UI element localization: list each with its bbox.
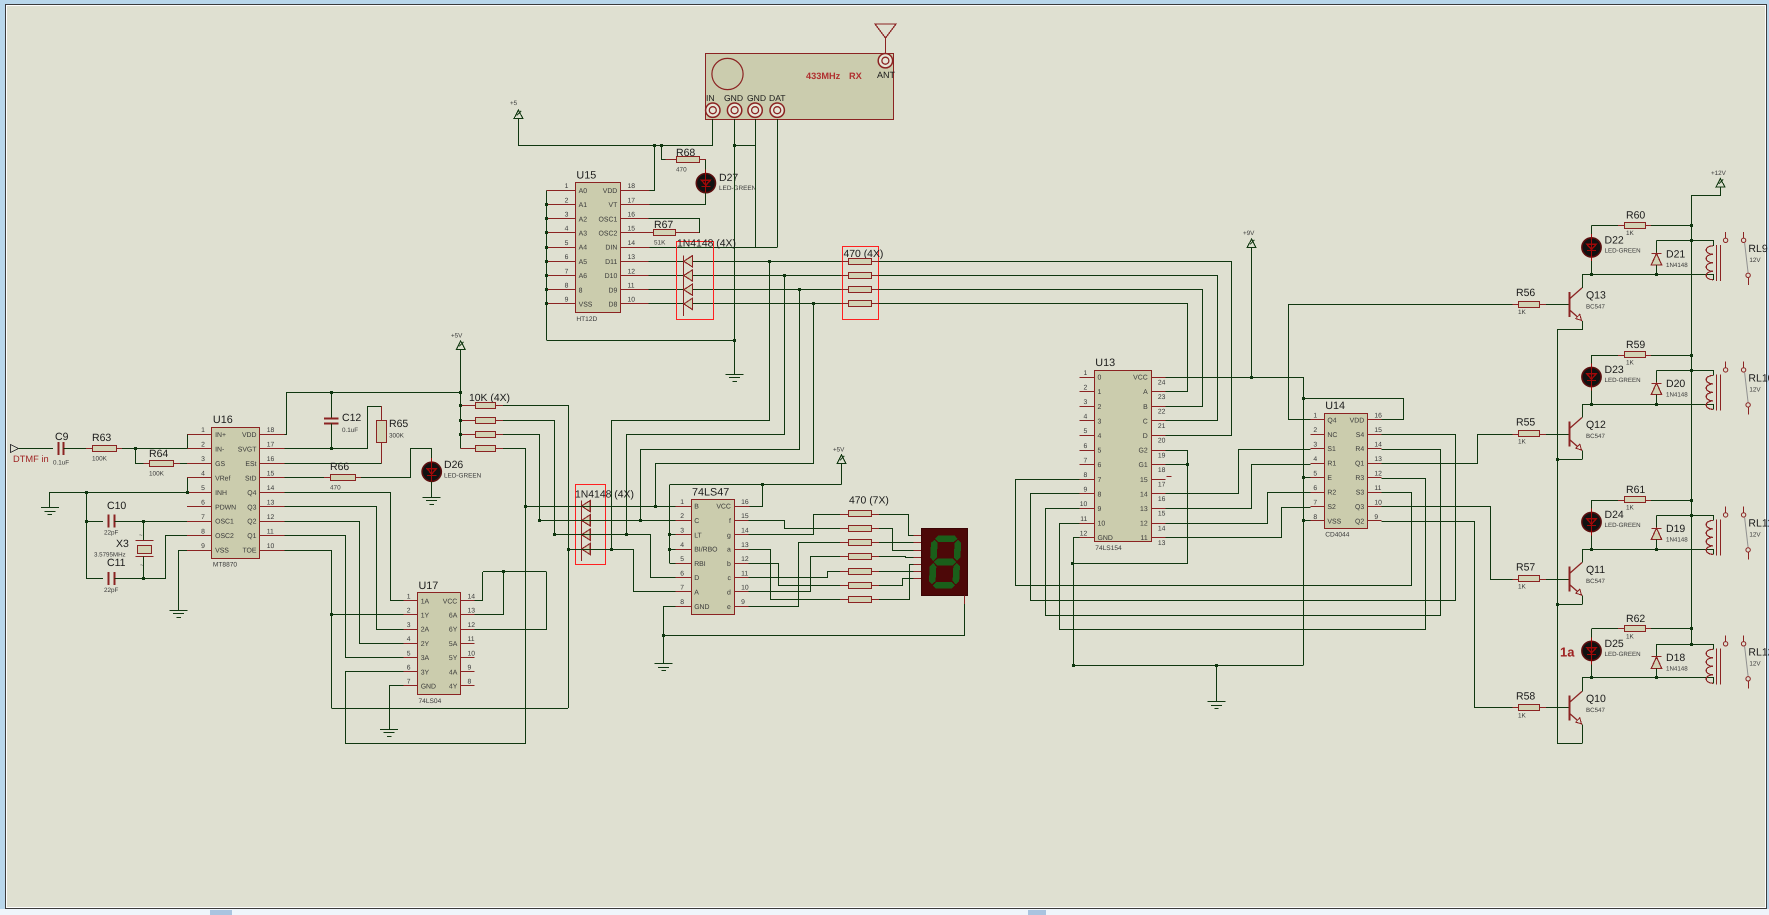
svg-text:BC547: BC547	[1586, 303, 1605, 310]
svg-text:R66: R66	[330, 461, 349, 473]
svg-text:GND: GND	[1098, 535, 1113, 542]
svg-text:~: ~	[139, 533, 143, 539]
svg-text:9: 9	[741, 599, 745, 606]
svg-text:D: D	[694, 575, 699, 582]
svg-text:6: 6	[1313, 485, 1317, 492]
svg-text:VCC: VCC	[1133, 375, 1148, 382]
svg-text:3: 3	[1084, 399, 1088, 406]
svg-text:OSC1: OSC1	[215, 519, 234, 526]
svg-text:IN-: IN-	[215, 446, 224, 453]
svg-text:3Y: 3Y	[421, 669, 430, 676]
svg-text:14: 14	[1140, 491, 1148, 498]
svg-text:1N4148: 1N4148	[1666, 262, 1688, 269]
svg-text:100K: 100K	[92, 456, 108, 463]
svg-text:13: 13	[1158, 540, 1166, 547]
svg-text:NC: NC	[1327, 432, 1337, 439]
svg-text:11: 11	[628, 283, 635, 290]
svg-text:14: 14	[267, 485, 275, 492]
svg-text:6: 6	[565, 254, 569, 261]
svg-text:4: 4	[1313, 456, 1317, 463]
svg-text:RBI: RBI	[694, 561, 706, 568]
svg-text:2: 2	[565, 197, 569, 204]
svg-text:Q1: Q1	[247, 533, 256, 540]
svg-text:D10: D10	[605, 273, 618, 280]
svg-text:3: 3	[407, 622, 411, 629]
svg-text:SVGT: SVGT	[238, 446, 258, 453]
svg-text:4: 4	[407, 636, 411, 643]
svg-text:S4: S4	[1356, 432, 1365, 439]
svg-text:A0: A0	[579, 188, 588, 195]
svg-text:LED-GREEN: LED-GREEN	[719, 185, 757, 192]
svg-text:7: 7	[407, 679, 411, 686]
svg-text:+5: +5	[510, 100, 518, 107]
svg-text:G1: G1	[1138, 462, 1147, 469]
svg-text:15: 15	[1374, 427, 1382, 434]
svg-text:16: 16	[628, 212, 636, 219]
svg-text:11: 11	[1141, 535, 1148, 542]
svg-text:14: 14	[468, 594, 476, 601]
svg-text:1: 1	[680, 499, 684, 506]
svg-text:IN: IN	[706, 93, 715, 103]
svg-text:13: 13	[1374, 456, 1382, 463]
svg-text:15: 15	[267, 471, 275, 478]
svg-text:6Y: 6Y	[449, 627, 458, 634]
svg-text:18: 18	[267, 427, 275, 434]
svg-text:C: C	[1143, 418, 1148, 425]
svg-text:17: 17	[628, 197, 636, 204]
svg-text:2: 2	[201, 442, 205, 449]
svg-text:RL11: RL11	[1748, 517, 1769, 529]
svg-text:3: 3	[680, 528, 684, 535]
svg-text:R65: R65	[389, 418, 408, 430]
svg-text:5A: 5A	[449, 641, 458, 648]
svg-text:2Y: 2Y	[421, 641, 430, 648]
svg-text:10: 10	[1098, 521, 1106, 528]
svg-text:LED-GREEN: LED-GREEN	[1605, 377, 1641, 384]
svg-text:7: 7	[1084, 457, 1088, 464]
svg-text:R4: R4	[1355, 446, 1364, 453]
svg-text:D: D	[1143, 433, 1148, 440]
svg-text:2: 2	[1084, 384, 1088, 391]
svg-text:R57: R57	[1516, 562, 1535, 574]
svg-text:D8: D8	[608, 302, 617, 309]
svg-text:D9: D9	[608, 287, 617, 294]
svg-text:2: 2	[680, 513, 684, 520]
svg-text:S1: S1	[1327, 446, 1336, 453]
svg-text:1: 1	[1098, 389, 1102, 396]
svg-text:9: 9	[1374, 514, 1378, 521]
svg-text:R63: R63	[92, 432, 111, 444]
svg-text:R55: R55	[1516, 417, 1535, 429]
svg-text:RX: RX	[849, 71, 863, 81]
svg-text:7: 7	[680, 585, 684, 592]
svg-text:e: e	[727, 604, 731, 611]
svg-text:A2: A2	[579, 216, 588, 223]
svg-text:BI/RBO: BI/RBO	[694, 547, 718, 554]
svg-text:C11: C11	[107, 557, 126, 569]
svg-text:3A: 3A	[421, 655, 430, 662]
svg-text:Q10: Q10	[1586, 693, 1606, 705]
svg-text:8: 8	[201, 528, 205, 535]
svg-text:15: 15	[741, 513, 749, 520]
svg-text:Q2: Q2	[247, 519, 256, 526]
svg-text:7: 7	[1313, 499, 1317, 506]
svg-text:INH: INH	[215, 490, 227, 497]
svg-text:2: 2	[1313, 427, 1317, 434]
svg-text:OSC2: OSC2	[599, 231, 618, 238]
svg-text:GND: GND	[421, 684, 436, 691]
svg-text:g: g	[727, 532, 731, 539]
svg-text:1: 1	[1084, 370, 1088, 377]
svg-text:1N4148 (4X): 1N4148 (4X)	[677, 239, 736, 250]
svg-text:VDD: VDD	[1350, 417, 1365, 424]
svg-text:B: B	[694, 504, 699, 511]
svg-text:13: 13	[1140, 506, 1148, 513]
svg-text:5: 5	[1098, 448, 1102, 455]
svg-text:1N4148: 1N4148	[1666, 392, 1688, 399]
svg-text:24: 24	[1158, 379, 1166, 386]
svg-text:22pF: 22pF	[104, 587, 119, 594]
svg-text:0.1uF: 0.1uF	[342, 427, 358, 434]
svg-text:D11: D11	[605, 259, 617, 266]
svg-text:11: 11	[741, 570, 748, 577]
svg-text:12V: 12V	[1749, 531, 1761, 538]
svg-text:16: 16	[741, 499, 749, 506]
svg-text:R68: R68	[676, 147, 695, 159]
svg-text:3: 3	[201, 456, 205, 463]
svg-text:R56: R56	[1516, 287, 1535, 299]
svg-text:c: c	[727, 575, 731, 582]
svg-text:R2: R2	[1327, 490, 1336, 497]
svg-text:1K: 1K	[1518, 712, 1527, 719]
svg-text:11: 11	[267, 528, 274, 535]
svg-text:9: 9	[1098, 506, 1102, 513]
svg-text:Q4: Q4	[247, 490, 256, 497]
svg-text:E: E	[1327, 475, 1332, 482]
svg-text:MT8870: MT8870	[213, 561, 238, 568]
svg-text:1N4148: 1N4148	[1666, 537, 1688, 544]
svg-text:LT: LT	[694, 532, 702, 539]
svg-text:CD4044: CD4044	[1325, 532, 1350, 539]
svg-text:+5V: +5V	[833, 447, 845, 454]
svg-text:470: 470	[330, 485, 341, 492]
svg-text:DIN: DIN	[605, 245, 617, 252]
svg-text:3: 3	[1313, 441, 1317, 448]
svg-text:8: 8	[1084, 472, 1088, 479]
svg-text:74LS154: 74LS154	[1095, 545, 1122, 552]
svg-text:1: 1	[407, 594, 411, 601]
svg-text:74LS47: 74LS47	[692, 486, 729, 498]
svg-text:C10: C10	[107, 500, 126, 512]
svg-text:11: 11	[1374, 485, 1381, 492]
svg-text:12V: 12V	[1749, 386, 1761, 393]
svg-text:0: 0	[1098, 375, 1102, 382]
svg-text:S3: S3	[1356, 490, 1365, 497]
svg-text:21: 21	[1158, 423, 1166, 430]
svg-text:12: 12	[468, 622, 476, 629]
svg-text:GS: GS	[215, 461, 225, 468]
svg-text:+12V: +12V	[1711, 170, 1727, 177]
svg-text:15: 15	[1158, 511, 1166, 518]
svg-text:13: 13	[267, 499, 275, 506]
svg-text:2: 2	[407, 608, 411, 615]
svg-text:6A: 6A	[449, 613, 458, 620]
svg-text:16: 16	[267, 456, 275, 463]
svg-text:13: 13	[468, 608, 476, 615]
svg-text:R59: R59	[1626, 339, 1645, 351]
svg-text:Q3: Q3	[247, 504, 256, 511]
svg-text:BC547: BC547	[1586, 433, 1605, 440]
svg-text:C: C	[694, 518, 699, 525]
svg-text:8: 8	[1313, 514, 1317, 521]
svg-text:1A: 1A	[421, 598, 430, 605]
svg-text:3: 3	[1098, 418, 1102, 425]
svg-text:100K: 100K	[149, 471, 165, 478]
svg-text:PDWN: PDWN	[215, 504, 236, 511]
svg-text:5: 5	[565, 240, 569, 247]
svg-text:17: 17	[1158, 482, 1166, 489]
svg-text:R61: R61	[1626, 484, 1645, 496]
svg-text:D21: D21	[1666, 248, 1685, 260]
svg-text:9: 9	[201, 543, 205, 550]
svg-text:1N4148 (4X): 1N4148 (4X)	[575, 490, 634, 501]
svg-text:9: 9	[565, 297, 569, 304]
svg-text:VDD: VDD	[242, 432, 257, 439]
svg-text:14: 14	[1158, 525, 1166, 532]
svg-text:A5: A5	[579, 259, 588, 266]
svg-text:4Y: 4Y	[449, 684, 458, 691]
svg-text:1N4148: 1N4148	[1666, 665, 1688, 672]
svg-text:ANT: ANT	[877, 70, 896, 80]
svg-text:16: 16	[1374, 413, 1382, 420]
svg-text:13: 13	[741, 542, 749, 549]
svg-text:5: 5	[1313, 470, 1317, 477]
svg-text:R62: R62	[1626, 613, 1645, 625]
svg-text:18: 18	[628, 183, 636, 190]
svg-text:10: 10	[267, 543, 275, 550]
svg-text:3: 3	[565, 212, 569, 219]
svg-text:3.5795MHz: 3.5795MHz	[94, 552, 126, 559]
svg-text:9: 9	[1084, 487, 1088, 494]
svg-text:R67: R67	[654, 219, 673, 231]
svg-text:470 (7X): 470 (7X)	[849, 496, 889, 507]
svg-text:IN+: IN+	[215, 432, 226, 439]
svg-text:1: 1	[201, 427, 205, 434]
svg-text:TOE: TOE	[242, 548, 256, 555]
svg-text:DTMF in: DTMF in	[13, 454, 49, 464]
svg-text:R64: R64	[149, 448, 168, 460]
svg-text:a: a	[727, 547, 731, 554]
svg-text:7: 7	[1098, 477, 1102, 484]
svg-text:Q4: Q4	[1327, 417, 1336, 424]
svg-text:6: 6	[1098, 462, 1102, 469]
svg-text:6: 6	[1084, 443, 1088, 450]
svg-text:C12: C12	[342, 412, 361, 424]
svg-text:1K: 1K	[1626, 230, 1635, 237]
svg-text:Q13: Q13	[1586, 289, 1606, 301]
svg-text:d: d	[727, 590, 731, 597]
svg-text:11: 11	[468, 636, 475, 643]
svg-text:U17: U17	[419, 580, 439, 592]
svg-text:5: 5	[201, 485, 205, 492]
svg-text:51K: 51K	[654, 240, 666, 247]
svg-text:f: f	[729, 518, 731, 525]
svg-text:1K: 1K	[1626, 360, 1635, 367]
svg-text:VDD: VDD	[603, 188, 618, 195]
svg-text:5Y: 5Y	[449, 655, 458, 662]
svg-text:8: 8	[468, 679, 472, 686]
svg-text:1K: 1K	[1626, 633, 1635, 640]
svg-text:14: 14	[628, 240, 636, 247]
svg-text:5: 5	[407, 650, 411, 657]
svg-text:1a: 1a	[1560, 645, 1575, 660]
svg-text:2A: 2A	[421, 627, 430, 634]
svg-text:RL10: RL10	[1748, 372, 1769, 384]
svg-text:A: A	[1143, 389, 1148, 396]
svg-text:B: B	[1143, 404, 1148, 411]
svg-text:A3: A3	[579, 231, 588, 238]
svg-text:1K: 1K	[1518, 309, 1527, 316]
svg-text:U13: U13	[1095, 357, 1115, 369]
svg-text:6: 6	[407, 665, 411, 672]
svg-text:17: 17	[267, 442, 275, 449]
svg-text:4A: 4A	[449, 669, 458, 676]
svg-text:OSC2: OSC2	[215, 533, 234, 540]
svg-text:LED-GREEN: LED-GREEN	[444, 473, 482, 480]
svg-text:1: 1	[1313, 413, 1317, 420]
svg-text:22pF: 22pF	[104, 530, 119, 537]
svg-text:A4: A4	[579, 245, 588, 252]
svg-text:8: 8	[579, 287, 583, 294]
svg-text:HT12D: HT12D	[576, 316, 597, 323]
svg-text:BC547: BC547	[1586, 707, 1605, 714]
svg-text:VCC: VCC	[443, 598, 458, 605]
svg-text:R60: R60	[1626, 209, 1645, 221]
svg-text:5: 5	[1084, 428, 1088, 435]
svg-text:8: 8	[565, 283, 569, 290]
svg-text:7: 7	[565, 268, 569, 275]
svg-text:D19: D19	[1666, 523, 1685, 535]
svg-text:Q12: Q12	[1586, 419, 1606, 431]
svg-text:GND: GND	[747, 93, 766, 103]
svg-text:~: ~	[140, 563, 144, 569]
svg-text:13: 13	[628, 254, 636, 261]
svg-text:RL9: RL9	[1748, 243, 1767, 255]
svg-text:Q3: Q3	[1355, 504, 1364, 511]
svg-text:U15: U15	[576, 170, 596, 182]
svg-text:U16: U16	[213, 414, 233, 426]
svg-text:VCC: VCC	[716, 504, 731, 511]
svg-text:A1: A1	[579, 202, 588, 209]
svg-text:A: A	[694, 590, 699, 597]
svg-text:433MHz: 433MHz	[806, 71, 841, 81]
svg-text:D27: D27	[719, 172, 738, 184]
svg-text:10: 10	[628, 297, 636, 304]
svg-text:OSC1: OSC1	[599, 216, 618, 223]
svg-text:7: 7	[201, 514, 205, 521]
svg-text:R3: R3	[1355, 475, 1364, 482]
svg-text:VSS: VSS	[579, 302, 593, 309]
svg-text:+5V: +5V	[451, 333, 463, 340]
svg-text:D18: D18	[1666, 652, 1685, 664]
svg-text:14: 14	[1374, 441, 1382, 448]
svg-text:LED-GREEN: LED-GREEN	[1605, 651, 1641, 658]
svg-text:12: 12	[628, 268, 636, 275]
svg-text:10: 10	[468, 650, 476, 657]
svg-text:StD: StD	[245, 475, 257, 482]
svg-text:LED-GREEN: LED-GREEN	[1605, 522, 1641, 529]
svg-text:X3: X3	[116, 538, 129, 550]
svg-text:74LS04: 74LS04	[419, 698, 442, 705]
svg-text:R1: R1	[1327, 461, 1336, 468]
svg-text:VSS: VSS	[1327, 519, 1341, 526]
svg-text:VT: VT	[608, 202, 618, 209]
svg-text:23: 23	[1158, 394, 1166, 401]
svg-text:9: 9	[468, 665, 472, 672]
svg-text:b: b	[727, 561, 731, 568]
svg-text:11: 11	[1080, 516, 1087, 523]
svg-text:VSS: VSS	[215, 548, 229, 555]
svg-text:1K: 1K	[1626, 505, 1635, 512]
svg-text:D26: D26	[444, 459, 463, 471]
svg-text:1: 1	[565, 183, 569, 190]
svg-text:10: 10	[1374, 499, 1382, 506]
svg-text:12V: 12V	[1749, 257, 1761, 264]
svg-text:22: 22	[1158, 409, 1166, 416]
svg-text:Q2: Q2	[1355, 519, 1364, 526]
svg-text:D22: D22	[1605, 234, 1624, 246]
svg-text:19: 19	[1158, 452, 1166, 459]
svg-text:8: 8	[1098, 491, 1102, 498]
svg-text:5: 5	[680, 556, 684, 563]
svg-text:1Y: 1Y	[421, 613, 430, 620]
svg-text:20: 20	[1158, 438, 1166, 445]
svg-text:10: 10	[1080, 501, 1088, 508]
svg-text:300K: 300K	[389, 433, 405, 440]
svg-text:Q1: Q1	[1355, 461, 1364, 468]
svg-text:15: 15	[1140, 477, 1148, 484]
svg-text:10: 10	[741, 585, 749, 592]
svg-text:16: 16	[1158, 496, 1166, 503]
svg-text:12: 12	[1080, 530, 1088, 537]
svg-text:6: 6	[680, 570, 684, 577]
svg-text:4: 4	[201, 471, 205, 478]
svg-text:4: 4	[1084, 414, 1088, 421]
svg-text:GND: GND	[694, 604, 709, 611]
svg-text:1K: 1K	[1518, 439, 1527, 446]
svg-text:12V: 12V	[1749, 660, 1761, 667]
svg-text:D20: D20	[1666, 378, 1685, 390]
svg-text:12: 12	[741, 556, 749, 563]
svg-text:A6: A6	[579, 273, 588, 280]
svg-text:0.1uF: 0.1uF	[53, 460, 69, 467]
svg-text:+9V: +9V	[1243, 230, 1255, 237]
svg-text:C9: C9	[55, 431, 69, 443]
svg-text:D24: D24	[1605, 509, 1624, 521]
svg-text:8: 8	[680, 599, 684, 606]
svg-text:DAT: DAT	[769, 93, 786, 103]
svg-text:12: 12	[1374, 470, 1382, 477]
svg-text:S2: S2	[1327, 504, 1336, 511]
svg-text:GND: GND	[724, 93, 743, 103]
svg-text:4: 4	[680, 542, 684, 549]
svg-text:4: 4	[565, 226, 569, 233]
svg-text:LED-GREEN: LED-GREEN	[1605, 247, 1641, 254]
svg-text:BC547: BC547	[1586, 578, 1605, 585]
svg-text:12: 12	[1140, 521, 1148, 528]
svg-text:2: 2	[1098, 404, 1102, 411]
svg-text:12: 12	[267, 514, 275, 521]
